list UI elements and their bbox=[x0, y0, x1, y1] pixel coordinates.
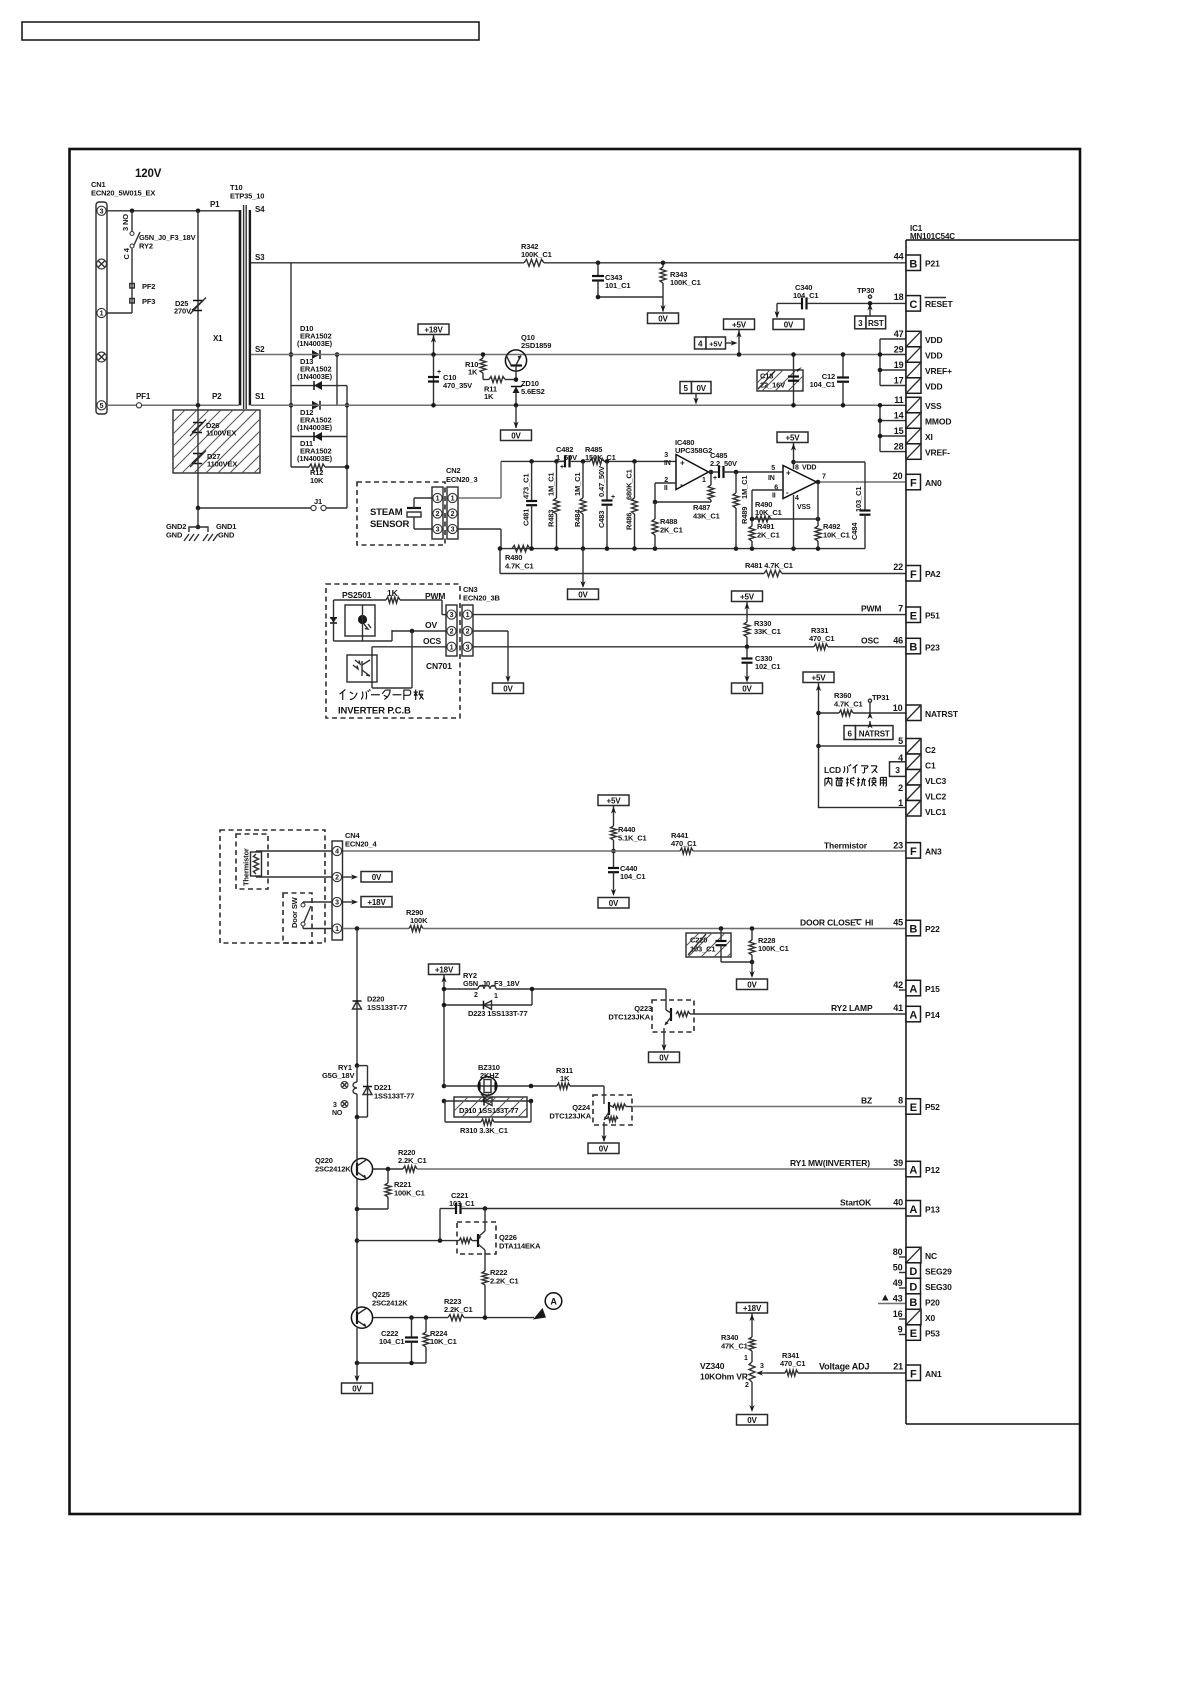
svg-text:+: + bbox=[713, 475, 717, 482]
svg-text:14: 14 bbox=[894, 411, 904, 421]
text C12 104_C1 bbox=[810, 372, 835, 389]
wire thermistor line bbox=[342, 850, 680, 852]
resistor R224 bbox=[423, 1318, 429, 1363]
svg-text:NC: NC bbox=[925, 1251, 937, 1261]
svg-text:49: 49 bbox=[893, 1278, 903, 1288]
wire 0V stem below ZD10 bbox=[513, 405, 518, 428]
opamp1 pin labels 3 IN 2 II 1 bbox=[664, 452, 706, 492]
svg-text:1100VEX: 1100VEX bbox=[207, 460, 237, 469]
svg-text:0V: 0V bbox=[658, 314, 668, 323]
junction buzzer right bbox=[529, 1084, 534, 1089]
text R485 150K_C1 bbox=[585, 445, 616, 462]
relay contact symbol upper bbox=[341, 1082, 348, 1089]
svg-text:10K_C1: 10K_C1 bbox=[755, 508, 782, 517]
text R221 100K_C1 bbox=[394, 1180, 425, 1198]
CN4 pin 1 bbox=[332, 924, 341, 933]
diode D12 bbox=[312, 401, 320, 410]
VSS pin bracket bbox=[878, 403, 906, 452]
pin 18 RESET bbox=[894, 292, 954, 311]
wire C343 R343 bottom link bbox=[598, 296, 663, 298]
wire +18V stem bbox=[431, 335, 436, 355]
svg-text:2: 2 bbox=[898, 783, 903, 793]
capacitor C10 electrolytic bbox=[428, 355, 441, 406]
svg-text:ECN20_4: ECN20_4 bbox=[345, 840, 377, 849]
svg-text:150K_C1: 150K_C1 bbox=[585, 453, 616, 462]
resistor R330 bbox=[744, 622, 750, 647]
test point TP31 bbox=[867, 699, 872, 719]
junction +5V stem rail bbox=[737, 352, 742, 357]
text D25 270V bbox=[174, 299, 191, 316]
svg-text:P51: P51 bbox=[925, 611, 940, 621]
wire PA2 branch down bbox=[499, 549, 501, 574]
wire door switch to CN4 pin1 bbox=[303, 926, 332, 929]
wire S2 to cathode column bbox=[336, 355, 338, 406]
resistor R331 bbox=[814, 644, 828, 650]
resistor R340 bbox=[749, 1337, 755, 1362]
CN3 right pin 2 bbox=[463, 626, 472, 635]
wire +18V rail S2 bbox=[251, 354, 880, 356]
pin 5 C2 bbox=[898, 736, 936, 755]
wire opto input bottom bbox=[334, 623, 393, 641]
pin 11 VSS bbox=[894, 395, 942, 413]
svg-text:3: 3 bbox=[895, 765, 900, 775]
resistor R492 bbox=[815, 519, 821, 549]
svg-text:(1N4003E): (1N4003E) bbox=[297, 454, 333, 463]
svg-text:X0: X0 bbox=[925, 1313, 936, 1323]
svg-text:7: 7 bbox=[822, 474, 826, 481]
svg-text:+18V: +18V bbox=[743, 1304, 762, 1313]
transistor Q223 DTC123JKA bbox=[652, 1000, 694, 1032]
text Q220 2SC2412K bbox=[315, 1156, 351, 1174]
svg-text:B: B bbox=[909, 1297, 917, 1309]
wire 0V stem Q225 bbox=[354, 1363, 359, 1382]
svg-text:16: 16 bbox=[893, 1309, 903, 1319]
transistor Q226 DTA114EKA bbox=[457, 1222, 496, 1254]
svg-text:PF3: PF3 bbox=[142, 297, 155, 306]
junction right column R12 bbox=[345, 465, 350, 470]
svg-text:STEAM: STEAM bbox=[370, 507, 403, 518]
text ZD10 5.6ES2 bbox=[521, 379, 545, 396]
diode D10 bbox=[312, 350, 320, 359]
svg-text:10K: 10K bbox=[310, 476, 324, 485]
pin 41 P14 bbox=[893, 1003, 940, 1022]
wire PA2 line to R481 bbox=[500, 573, 764, 575]
pin 17 VDD bbox=[894, 376, 943, 394]
IC1 reference label bbox=[910, 224, 955, 241]
label box 4 +5V with arrow bbox=[695, 337, 738, 349]
svg-text:OSC: OSC bbox=[861, 636, 879, 646]
svg-text:ECN20_3: ECN20_3 bbox=[446, 475, 477, 484]
svg-text:5.1K_C1: 5.1K_C1 bbox=[618, 834, 647, 843]
IC1 MN101C54C outline bbox=[906, 240, 1080, 1424]
diode D221 bbox=[357, 1066, 372, 1117]
wire R481 to pin22 bbox=[782, 573, 906, 575]
diode D13 bbox=[314, 381, 322, 390]
relay contact symbol lower bbox=[333, 1101, 348, 1110]
svg-text:10KOhm VR: 10KOhm VR bbox=[700, 1372, 748, 1382]
capacitor C440 bbox=[608, 851, 619, 896]
junction S2 cathode bbox=[335, 352, 340, 357]
svg-text:MN101C54C: MN101C54C bbox=[910, 232, 955, 241]
svg-text:0V: 0V bbox=[742, 684, 752, 693]
svg-text:XI: XI bbox=[925, 432, 933, 442]
svg-text:0V: 0V bbox=[503, 684, 513, 693]
text Q10 2SD1859 bbox=[521, 333, 551, 350]
svg-text:120V: 120V bbox=[135, 168, 162, 180]
text VZ340 10KOhm VR bbox=[700, 1361, 748, 1382]
svg-text:NATRST: NATRST bbox=[925, 709, 959, 719]
svg-text:100K: 100K bbox=[410, 916, 428, 925]
wire rectifier left column bbox=[290, 263, 292, 437]
svg-text:G5G_18V: G5G_18V bbox=[322, 1071, 354, 1080]
resistor R441 bbox=[680, 848, 693, 854]
wire +5V stem R440 bbox=[611, 806, 616, 827]
resistor R486 bbox=[632, 461, 638, 548]
page border frame bbox=[70, 149, 1081, 1514]
net label +5V box opamp bbox=[777, 432, 808, 443]
wire coil to Q223 collector bbox=[665, 989, 667, 1003]
wire C221 to StartOK line bbox=[461, 1208, 907, 1210]
svg-text:P1: P1 bbox=[210, 200, 220, 209]
text C10 470_35V bbox=[443, 373, 472, 390]
svg-text:+5V: +5V bbox=[732, 320, 747, 329]
junction buzzer +18V bbox=[442, 1084, 447, 1089]
zener diode ZD10 bbox=[511, 385, 523, 406]
text RY1 G5G_18V bbox=[322, 1063, 354, 1080]
svg-text:18: 18 bbox=[894, 292, 904, 302]
svg-text:470_C1: 470_C1 bbox=[780, 1359, 805, 1368]
wire D13 row bbox=[291, 385, 347, 387]
text R342 100K_C1 bbox=[521, 242, 552, 259]
resistor R223 bbox=[448, 1315, 464, 1321]
svg-text:II: II bbox=[772, 493, 776, 500]
junction pin5 stem bbox=[816, 744, 821, 749]
net label 0V box C340 bbox=[773, 319, 804, 330]
junction rail R486 bbox=[632, 459, 637, 464]
svg-text:+: + bbox=[680, 459, 685, 468]
svg-text:CN2: CN2 bbox=[446, 466, 461, 475]
CN3 left pin 3 bbox=[447, 610, 456, 619]
wire sensor to CN2 pin3 bbox=[414, 528, 432, 530]
junction R220 R221 bbox=[386, 1167, 391, 1172]
connector CN2 label bbox=[446, 466, 477, 484]
wire C221 left leg bbox=[439, 1209, 441, 1241]
wire P2 from CN1 pin5 to transformer bbox=[107, 404, 239, 406]
svg-text:J1: J1 bbox=[314, 497, 322, 506]
svg-text:F: F bbox=[910, 1368, 917, 1380]
svg-text:4.7K_C1: 4.7K_C1 bbox=[834, 700, 863, 709]
wire CN2 pin1 to filter rail bbox=[458, 461, 501, 498]
CN2 right pin 2 bbox=[448, 509, 457, 518]
svg-text:3: 3 bbox=[760, 1363, 764, 1370]
op-amp IC480a triangle bbox=[676, 455, 709, 490]
wire R311 to Q224 bbox=[570, 1086, 604, 1100]
pin 39 P12 bbox=[893, 1158, 940, 1177]
svg-text:20: 20 bbox=[893, 471, 903, 481]
capacitor C12 bbox=[837, 355, 849, 406]
junction ground node bbox=[196, 506, 201, 511]
text STEAM SENSOR bbox=[370, 507, 410, 530]
svg-text:43K_C1: 43K_C1 bbox=[693, 512, 720, 521]
svg-text:10K_C1: 10K_C1 bbox=[430, 1337, 457, 1346]
hatched deleted capacitor C220 103_C1 bbox=[686, 933, 731, 957]
junction C12 top bbox=[841, 352, 846, 357]
svg-text:+5V: +5V bbox=[709, 340, 722, 349]
wire Q225 base line bbox=[373, 1317, 448, 1319]
junction D223 left bbox=[442, 1003, 447, 1008]
wire Q225 emitter down bbox=[356, 1328, 358, 1363]
svg-text:+18V: +18V bbox=[367, 898, 386, 907]
text R220 2.2K_C1 bbox=[398, 1148, 427, 1165]
diode D223 bbox=[444, 1001, 532, 1010]
text R484 1M_C1 rotated bbox=[573, 473, 582, 527]
junction C10 bottom bbox=[431, 403, 436, 408]
pin 46 P23 bbox=[893, 636, 940, 654]
wire RY1 MW line to pin39 bbox=[417, 1168, 906, 1170]
svg-text:NO: NO bbox=[332, 1110, 343, 1117]
svg-text:1_50V: 1_50V bbox=[556, 453, 577, 462]
svg-text:47K_C1: 47K_C1 bbox=[721, 1342, 748, 1351]
junction R222 R223 bbox=[483, 1315, 488, 1320]
svg-text:LCD: LCD bbox=[824, 765, 841, 775]
text Q225 2SC2412K bbox=[372, 1290, 408, 1308]
CN4 pin 2 bbox=[332, 872, 341, 881]
svg-text:C: C bbox=[909, 299, 917, 311]
svg-text:+: + bbox=[560, 464, 564, 471]
wire Q226 emitter up bbox=[484, 1209, 486, 1227]
wire R290 to pin45 bbox=[423, 928, 906, 930]
svg-text:ECN20_5W015_EX: ECN20_5W015_EX bbox=[91, 189, 155, 198]
svg-text:45: 45 bbox=[893, 918, 903, 928]
svg-text:10: 10 bbox=[893, 703, 903, 713]
junction P1 / D25 bbox=[196, 209, 201, 214]
svg-text:4.7K_C1: 4.7K_C1 bbox=[505, 562, 534, 571]
svg-text:A: A bbox=[550, 1297, 557, 1307]
wire reset to pin18 bbox=[807, 302, 907, 304]
junction rail R483 bbox=[554, 459, 559, 464]
CN3 left pin 1 bbox=[447, 642, 456, 651]
text GND2 GND bbox=[166, 522, 186, 540]
svg-text:PF2: PF2 bbox=[142, 282, 155, 291]
svg-text:50: 50 bbox=[893, 1263, 903, 1273]
svg-text:RST: RST bbox=[868, 319, 884, 328]
svg-text:D223 1SS133T-77: D223 1SS133T-77 bbox=[468, 1009, 527, 1018]
text Q223 DTC123JKA bbox=[608, 1004, 652, 1022]
wire D11 row bbox=[291, 436, 347, 438]
text D10 ERA1502 1N4003E bbox=[297, 324, 333, 348]
svg-text:C481: C481 bbox=[522, 509, 531, 526]
pin 43 P20 with marker bbox=[878, 1294, 940, 1310]
svg-text:3: 3 bbox=[664, 452, 668, 459]
wire door switch to CN4 pin3 bbox=[303, 902, 332, 903]
text Q224 DTC123JKA bbox=[549, 1103, 591, 1121]
connector CN2 right strip bbox=[447, 487, 458, 539]
svg-text:7: 7 bbox=[898, 604, 903, 614]
resistor R360 bbox=[819, 710, 907, 716]
text C482 1_50V bbox=[556, 445, 577, 462]
svg-text:INVERTER P.C.B: INVERTER P.C.B bbox=[338, 706, 411, 717]
svg-text:2KHZ: 2KHZ bbox=[480, 1071, 500, 1080]
svg-text:1M_C1: 1M_C1 bbox=[573, 473, 582, 496]
wire OV internal bbox=[372, 629, 446, 688]
svg-text:C1: C1 bbox=[925, 761, 936, 771]
svg-text:R483: R483 bbox=[547, 510, 556, 527]
wire top rail C482 to R485 bbox=[570, 460, 591, 462]
wire Q220 base line bbox=[373, 1168, 403, 1170]
wire 0V rail S1 bbox=[251, 404, 880, 406]
svg-text:2: 2 bbox=[474, 992, 478, 999]
svg-text:S4: S4 bbox=[255, 205, 265, 214]
dashed box steam sensor bbox=[357, 482, 445, 545]
svg-text:Door SW: Door SW bbox=[290, 896, 299, 928]
text GND1 GND bbox=[216, 522, 236, 540]
svg-text:A: A bbox=[909, 1010, 917, 1022]
relay RY2 contact (switch) bbox=[130, 232, 140, 249]
wire opamp2 output to pin20 bbox=[817, 481, 907, 483]
junction door line D220 bbox=[355, 926, 360, 931]
text D26 1100VEX bbox=[206, 421, 236, 438]
net label 0V box R228 bbox=[737, 979, 768, 990]
wire CN4 pin2 arrow to 0V bbox=[343, 874, 359, 879]
text D221 1SS133T-77 bbox=[374, 1083, 414, 1101]
wire OCS internal bbox=[372, 647, 446, 688]
junction Q226 emitter StartOK bbox=[483, 1206, 488, 1211]
svg-text:5: 5 bbox=[684, 384, 689, 393]
capacitor C220 symbol bbox=[716, 929, 727, 963]
svg-text:1K: 1K bbox=[560, 1074, 570, 1083]
svg-text:0V: 0V bbox=[599, 1144, 609, 1153]
junction door line C220 bbox=[719, 926, 724, 931]
svg-text:SEG29: SEG29 bbox=[925, 1267, 952, 1277]
pin 49 SEG30 bbox=[893, 1278, 952, 1294]
connector CN3 right strip bbox=[462, 605, 473, 656]
text R330 33K_C1 bbox=[754, 619, 781, 636]
net label 0V box C440 bbox=[598, 898, 629, 909]
text D220 1SS133T-77 bbox=[367, 995, 407, 1013]
svg-text:HI: HI bbox=[865, 918, 873, 928]
text R12 10K bbox=[310, 468, 324, 485]
junction TP30 bbox=[868, 301, 873, 306]
wire sensor to CN2 pin1 bbox=[414, 497, 432, 499]
wire C485 to opamp2 bbox=[724, 471, 784, 473]
svg-text:1: 1 bbox=[466, 612, 470, 619]
svg-text:P52: P52 bbox=[925, 1102, 940, 1112]
svg-text:3: 3 bbox=[100, 208, 104, 215]
text R441 470_C1 bbox=[671, 831, 696, 848]
CN2 right pin 3 bbox=[448, 524, 457, 533]
svg-text:VDD: VDD bbox=[925, 382, 943, 392]
junction +18V stem rail bbox=[431, 352, 436, 357]
svg-text:E: E bbox=[910, 610, 917, 622]
svg-text:PS2501: PS2501 bbox=[342, 590, 372, 600]
resistor R483 bbox=[554, 461, 560, 548]
wire R331 to pin46 bbox=[828, 646, 906, 648]
svg-text:C484: C484 bbox=[850, 522, 859, 540]
svg-text:P20: P20 bbox=[925, 1298, 940, 1308]
junction R490 left bbox=[750, 517, 755, 522]
svg-text:R486: R486 bbox=[625, 513, 634, 530]
pin 9 P53 bbox=[898, 1325, 940, 1341]
svg-text:1K: 1K bbox=[484, 392, 494, 401]
net label 0V box R343 bbox=[648, 313, 679, 324]
junction R440 thermistor line bbox=[611, 849, 616, 854]
svg-text:DTC123JKA: DTC123JKA bbox=[608, 1013, 650, 1022]
resistor R220 bbox=[403, 1166, 417, 1172]
svg-text:0V: 0V bbox=[372, 873, 382, 882]
svg-text:2: 2 bbox=[451, 511, 455, 518]
resistor R12 bbox=[291, 464, 347, 470]
opamp IC480 label bbox=[675, 438, 712, 455]
svg-text:VDD: VDD bbox=[925, 351, 943, 361]
svg-text:28: 28 bbox=[894, 442, 904, 452]
CN1 pin 2 (unused) bbox=[97, 259, 107, 269]
connector CN2 left strip bbox=[432, 487, 443, 539]
svg-text:A: A bbox=[909, 1165, 917, 1177]
svg-text:40: 40 bbox=[893, 1198, 903, 1208]
text R440 5.1K_C1 bbox=[618, 825, 647, 843]
transformer T10 secondary winding bbox=[249, 210, 251, 405]
svg-text:19: 19 bbox=[894, 360, 904, 370]
svg-text:MMOD: MMOD bbox=[925, 417, 951, 427]
svg-text:+5V: +5V bbox=[740, 592, 755, 601]
pin 29 VDD bbox=[894, 345, 943, 363]
op-amp IC480b triangle bbox=[783, 466, 817, 499]
text RY2 G5N_J0_F3_18V bbox=[463, 971, 520, 988]
svg-text:C483: C483 bbox=[597, 511, 606, 528]
svg-text:VREF-: VREF- bbox=[925, 448, 950, 458]
text C343 101_C1 bbox=[605, 273, 630, 290]
optocoupler PS2501 photodiode box bbox=[345, 605, 375, 641]
pin 45 P22 bbox=[893, 918, 940, 936]
svg-text:S2: S2 bbox=[255, 345, 265, 354]
svg-text:1: 1 bbox=[494, 993, 498, 1000]
svg-text:0V: 0V bbox=[578, 590, 588, 599]
capacitor C343 bbox=[592, 263, 604, 297]
wire opamp2 VSS pin4 bbox=[793, 495, 795, 549]
text R492 10K_C1 bbox=[823, 522, 850, 540]
connector CN4 label bbox=[345, 831, 377, 849]
resistor 1K opto bbox=[386, 597, 400, 603]
wire PWM line to pin7 bbox=[473, 614, 906, 616]
text R490 10K_C1 bbox=[755, 500, 782, 517]
capacitor C484 bbox=[860, 462, 871, 549]
ground GND2 symbol bbox=[184, 527, 199, 541]
text R222 2.2K_C1 bbox=[490, 1268, 519, 1286]
svg-text:E: E bbox=[910, 1102, 917, 1114]
junction D310 left bbox=[442, 1099, 447, 1104]
fuse point PF1 bbox=[136, 403, 141, 408]
svg-text:TP31: TP31 bbox=[872, 693, 889, 702]
pin 21 AN1 bbox=[893, 1362, 942, 1381]
net label 0V box Q224 bbox=[588, 1143, 619, 1154]
junction P1 / RY2 branch bbox=[130, 209, 135, 214]
net label +5V box NATRST bbox=[803, 672, 834, 683]
pin 14 MMOD bbox=[894, 411, 952, 429]
wire +5V stem R330 bbox=[744, 602, 749, 623]
svg-text:C 4: C 4 bbox=[122, 247, 131, 259]
svg-text:P15: P15 bbox=[925, 984, 940, 994]
wire R223 to A flag bbox=[464, 1317, 534, 1319]
svg-text:2: 2 bbox=[745, 1382, 749, 1389]
potentiometer VZ340 bbox=[749, 1362, 766, 1412]
flag to A bbox=[533, 1308, 546, 1320]
text C222 104_C1 bbox=[379, 1329, 404, 1346]
wire CN2 pin3 to bottom rail bbox=[458, 529, 501, 549]
resistor R11 bbox=[483, 377, 516, 383]
text R483 1M_C1 rotated bbox=[547, 473, 556, 527]
diode opto input bbox=[330, 617, 337, 623]
svg-text:VLC3: VLC3 bbox=[925, 776, 947, 786]
